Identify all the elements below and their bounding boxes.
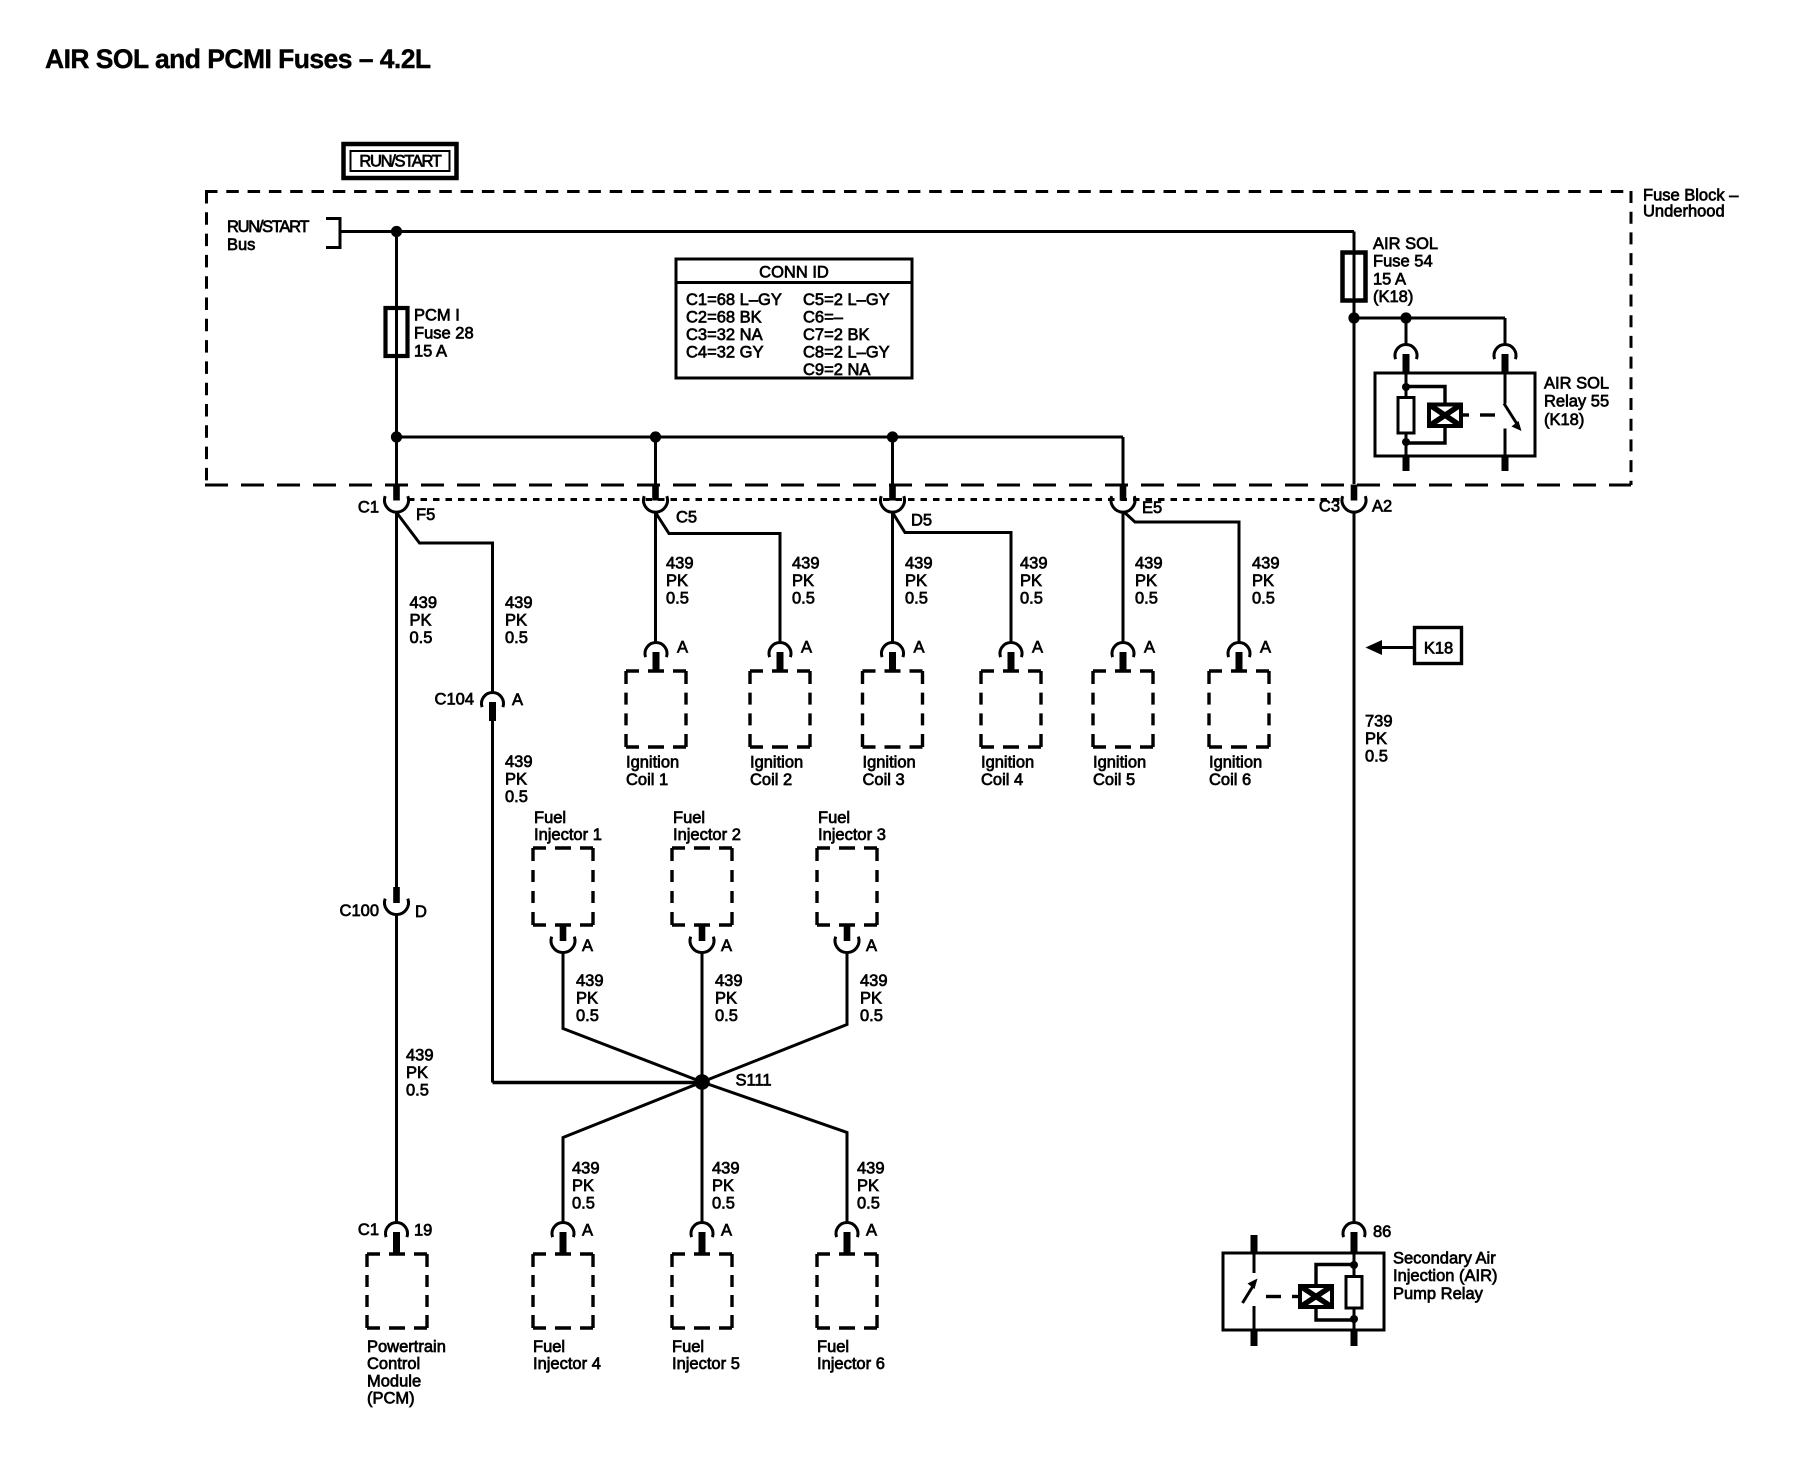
svg-text:A: A bbox=[1260, 638, 1271, 656]
svg-text:0.5: 0.5 bbox=[666, 589, 689, 607]
svg-text:(PCM): (PCM) bbox=[367, 1390, 415, 1408]
svg-text:Ignition: Ignition bbox=[863, 754, 916, 772]
svg-text:Fuel: Fuel bbox=[817, 1338, 849, 1356]
wire C100 down to PCM bbox=[395, 914, 398, 1223]
svg-text:A: A bbox=[801, 638, 812, 656]
svg-text:PK: PK bbox=[1135, 572, 1157, 590]
fuel injector 1 box bbox=[533, 848, 593, 925]
fuel injector 6 box bbox=[817, 1254, 877, 1328]
wire C5 branch to coil 2 bbox=[656, 513, 781, 644]
svg-text:Ignition: Ignition bbox=[750, 754, 803, 772]
svg-text:86: 86 bbox=[1373, 1223, 1391, 1241]
svg-text:439: 439 bbox=[406, 1046, 434, 1064]
wire splice to injector 6 bbox=[702, 1082, 847, 1223]
fuse block underhood dashed border right bbox=[1630, 191, 1633, 485]
svg-text:Coil 5: Coil 5 bbox=[1093, 771, 1135, 789]
wire relay left pin bottom bbox=[1405, 442, 1408, 456]
relay switch blade bbox=[1504, 404, 1517, 425]
svg-text:PK: PK bbox=[576, 989, 598, 1007]
relay secondary air injection pump box bbox=[1223, 1253, 1384, 1330]
wire C5 drop bbox=[654, 437, 657, 484]
svg-text:Relay 55: Relay 55 bbox=[1544, 393, 1609, 411]
svg-text:A: A bbox=[866, 937, 877, 955]
svg-text:Injector 1: Injector 1 bbox=[534, 826, 602, 844]
svg-text:739: 739 bbox=[1365, 712, 1393, 730]
svg-text:Coil 3: Coil 3 bbox=[863, 771, 905, 789]
svg-text:PK: PK bbox=[905, 572, 927, 590]
ignition coil 3 box bbox=[863, 671, 923, 747]
svg-text:(K18): (K18) bbox=[1544, 411, 1584, 429]
svg-text:PK: PK bbox=[406, 1064, 428, 1082]
node junction relay coil pin bbox=[1400, 312, 1411, 323]
pump relay switch fixed bottom bbox=[1253, 1306, 1256, 1330]
connector fuel injector 2 pin A bbox=[690, 925, 714, 953]
svg-text:439: 439 bbox=[1135, 554, 1163, 572]
wire pump resistor top bbox=[1353, 1265, 1356, 1277]
connector fuel injector 5 pin A bbox=[691, 1223, 713, 1255]
svg-text:A: A bbox=[512, 691, 523, 709]
svg-text:439: 439 bbox=[860, 972, 888, 990]
svg-text:A: A bbox=[866, 1221, 877, 1239]
pump relay right pin bottom stub bbox=[1351, 1330, 1358, 1346]
pump relay left pin bottom stub bbox=[1251, 1330, 1258, 1346]
svg-text:0.5: 0.5 bbox=[1365, 747, 1388, 765]
splice S111 bbox=[694, 1074, 710, 1090]
node pump relay coil bottom junction bbox=[1350, 1315, 1358, 1323]
wire E5 drop bbox=[1122, 437, 1125, 484]
svg-text:439: 439 bbox=[505, 594, 533, 612]
node junction below AIR SOL fuse bbox=[1348, 312, 1359, 323]
wire pump relay right pin inside bbox=[1353, 1253, 1356, 1266]
wire PCM I fuse vertical bbox=[395, 232, 398, 438]
svg-text:C4=32 GY: C4=32 GY bbox=[686, 344, 764, 362]
resistor pump relay bbox=[1346, 1277, 1362, 1309]
node pump relay coil top junction bbox=[1350, 1261, 1358, 1269]
K18 reference box bbox=[1415, 628, 1462, 664]
svg-text:C1: C1 bbox=[358, 1221, 379, 1239]
coil relay 55 winding bbox=[1429, 405, 1461, 427]
wire C104 horizontal into splice bbox=[493, 1081, 703, 1084]
svg-text:F5: F5 bbox=[416, 506, 435, 524]
svg-text:0.5: 0.5 bbox=[860, 1007, 883, 1025]
svg-text:439: 439 bbox=[1252, 554, 1280, 572]
svg-text:439: 439 bbox=[792, 554, 820, 572]
connector ignition coil 4 pin A bbox=[1000, 643, 1022, 671]
svg-text:RUN/START: RUN/START bbox=[359, 153, 441, 171]
svg-text:A: A bbox=[721, 1221, 732, 1239]
wire pump relay coil loop top bbox=[1316, 1265, 1354, 1287]
wire E5 branch to coil 6 bbox=[1124, 512, 1240, 644]
connector pump relay pin 86 bbox=[1343, 1223, 1365, 1254]
svg-text:0.5: 0.5 bbox=[715, 1007, 738, 1025]
connector ignition coil 5 pin A bbox=[1112, 643, 1134, 671]
svg-text:A: A bbox=[721, 937, 732, 955]
svg-text:CONN ID: CONN ID bbox=[759, 264, 829, 282]
connector relay 55 pin left bbox=[1395, 345, 1417, 374]
svg-text:0.5: 0.5 bbox=[1135, 589, 1158, 607]
svg-text:D5: D5 bbox=[911, 511, 932, 529]
connector relay 55 pin right bbox=[1494, 345, 1516, 374]
svg-text:Fuse 28: Fuse 28 bbox=[414, 324, 474, 342]
svg-text:PK: PK bbox=[1365, 730, 1387, 748]
connector ignition coil 6 pin A bbox=[1228, 643, 1250, 671]
in-line harness connector dotted line bbox=[408, 498, 1343, 501]
svg-text:PK: PK bbox=[792, 572, 814, 590]
pump relay switch fixed top bbox=[1253, 1253, 1256, 1273]
svg-text:0.5: 0.5 bbox=[576, 1007, 599, 1025]
connector C100 bbox=[385, 887, 409, 915]
connector C1 F5 bbox=[385, 485, 409, 513]
K18 arrow bbox=[1366, 640, 1383, 655]
svg-text:A: A bbox=[914, 638, 925, 656]
svg-text:PK: PK bbox=[712, 1177, 734, 1195]
svg-text:Module: Module bbox=[367, 1372, 421, 1390]
wire D5 drop bbox=[891, 437, 894, 484]
powertrain control module box bbox=[367, 1254, 427, 1328]
wire relay coil pin inside bbox=[1405, 373, 1408, 388]
wire AIR SOL fuse vertical bbox=[1353, 232, 1356, 485]
relay right pin bottom stub bbox=[1502, 456, 1509, 471]
relay switch fixed bottom bbox=[1504, 429, 1507, 457]
node bus junction C1 bbox=[391, 431, 402, 442]
CONN ID table box bbox=[676, 259, 912, 378]
svg-text:439: 439 bbox=[715, 972, 743, 990]
wire injector 3 drop bbox=[702, 953, 847, 1083]
connector C3 A2 bbox=[1342, 485, 1366, 513]
wire F5 diagonal branch bbox=[397, 513, 493, 693]
svg-text:15 A: 15 A bbox=[1373, 270, 1406, 288]
wire relay coil loop top bbox=[1406, 387, 1445, 405]
relay coil linkage stub bbox=[1461, 413, 1469, 416]
ignition coil 2 box bbox=[750, 671, 810, 747]
svg-text:439: 439 bbox=[410, 594, 438, 612]
svg-text:PK: PK bbox=[505, 611, 527, 629]
fuel injector 4 box bbox=[533, 1254, 593, 1328]
svg-text:Fuel: Fuel bbox=[533, 1338, 565, 1356]
ignition coil 6 box bbox=[1209, 671, 1269, 747]
fuse block underhood dashed border top bbox=[205, 190, 1631, 193]
svg-text:PK: PK bbox=[666, 572, 688, 590]
svg-text:Coil 4: Coil 4 bbox=[981, 771, 1023, 789]
wire splice to injector 4 bbox=[563, 1082, 702, 1223]
ignition coil 1 box bbox=[626, 671, 686, 747]
svg-text:Injector 5: Injector 5 bbox=[672, 1355, 740, 1373]
ignition coil 4 box bbox=[981, 671, 1041, 747]
svg-text:Ignition: Ignition bbox=[626, 754, 679, 772]
wire C3 A2 down to pump relay bbox=[1353, 512, 1356, 1223]
svg-text:Fuel: Fuel bbox=[672, 1338, 704, 1356]
connector fuel injector 4 pin A bbox=[552, 1223, 574, 1255]
fuse PCM I Fuse 28 bbox=[386, 308, 408, 356]
svg-text:0.5: 0.5 bbox=[1252, 589, 1275, 607]
connector PCM C1 pin 19 bbox=[386, 1223, 408, 1255]
svg-text:Injector 3: Injector 3 bbox=[818, 826, 886, 844]
node bus junction D5 bbox=[887, 431, 898, 442]
wire relay switch pin drop bbox=[1504, 318, 1507, 346]
svg-text:A: A bbox=[677, 638, 688, 656]
coil pump relay winding bbox=[1300, 1286, 1332, 1307]
pump relay switch blade bbox=[1243, 1286, 1254, 1303]
RUN/START feed box bbox=[344, 144, 457, 178]
svg-text:PK: PK bbox=[860, 989, 882, 1007]
pump relay linkage dash bbox=[1266, 1295, 1281, 1298]
svg-text:Injector 6: Injector 6 bbox=[817, 1355, 885, 1373]
wire splice to injector 5 bbox=[701, 1082, 704, 1223]
svg-text:C6=–: C6=– bbox=[803, 309, 844, 327]
svg-text:PK: PK bbox=[505, 770, 527, 788]
svg-text:C5: C5 bbox=[676, 508, 697, 526]
resistor relay 55 bbox=[1398, 398, 1414, 434]
fuel injector 3 box bbox=[817, 848, 877, 925]
wire C1 drop bbox=[395, 356, 398, 484]
svg-text:439: 439 bbox=[666, 554, 694, 572]
svg-text:439: 439 bbox=[905, 554, 933, 572]
svg-text:439: 439 bbox=[1020, 554, 1048, 572]
svg-text:C1: C1 bbox=[358, 498, 379, 516]
connector E5 bbox=[1111, 485, 1135, 513]
svg-text:C3=32 NA: C3=32 NA bbox=[686, 326, 763, 344]
node junction at PCM I fuse drop bbox=[391, 226, 402, 237]
svg-text:19: 19 bbox=[414, 1221, 432, 1239]
wire injector 2 drop bbox=[701, 953, 704, 1083]
svg-text:Injector 4: Injector 4 bbox=[533, 1355, 601, 1373]
wire injector 1 drop bbox=[563, 953, 702, 1083]
svg-text:0.5: 0.5 bbox=[857, 1194, 880, 1212]
svg-text:C3: C3 bbox=[1319, 498, 1340, 516]
svg-text:Coil 1: Coil 1 bbox=[626, 771, 668, 789]
RUN/START bus bracket bbox=[339, 217, 342, 249]
wire pump relay coil loop bottom bbox=[1316, 1307, 1354, 1320]
connector fuel injector 1 pin A bbox=[551, 925, 575, 953]
node bus junction C5 bbox=[650, 431, 661, 442]
wire C5 to coil 1 bbox=[654, 512, 657, 643]
svg-text:0.5: 0.5 bbox=[712, 1194, 735, 1212]
svg-text:C9=2 NA: C9=2 NA bbox=[803, 361, 870, 379]
svg-text:439: 439 bbox=[572, 1159, 600, 1177]
svg-text:Injection (AIR): Injection (AIR) bbox=[1393, 1267, 1498, 1285]
svg-text:PK: PK bbox=[715, 989, 737, 1007]
svg-text:PK: PK bbox=[1020, 572, 1042, 590]
svg-text:Coil 2: Coil 2 bbox=[750, 771, 792, 789]
pump relay left pin top stub bbox=[1251, 1235, 1258, 1254]
svg-text:C100: C100 bbox=[340, 902, 379, 920]
svg-text:Pump Relay: Pump Relay bbox=[1393, 1285, 1484, 1303]
svg-text:PCM I: PCM I bbox=[414, 306, 460, 324]
svg-text:C5=2 L–GY: C5=2 L–GY bbox=[803, 291, 890, 309]
svg-text:Fuse 54: Fuse 54 bbox=[1373, 253, 1433, 271]
svg-text:Underhood: Underhood bbox=[1643, 203, 1725, 221]
svg-text:PK: PK bbox=[410, 611, 432, 629]
node relay coil bottom junction bbox=[1402, 438, 1410, 446]
pump relay coil linkage stub bbox=[1292, 1295, 1300, 1298]
svg-text:Secondary Air: Secondary Air bbox=[1393, 1249, 1496, 1267]
svg-text:Fuel: Fuel bbox=[673, 809, 705, 827]
svg-text:Ignition: Ignition bbox=[1093, 754, 1146, 772]
svg-text:Ignition: Ignition bbox=[1209, 754, 1262, 772]
svg-text:0.5: 0.5 bbox=[406, 1081, 429, 1099]
svg-text:0.5: 0.5 bbox=[792, 589, 815, 607]
wire pump resistor bottom bbox=[1353, 1308, 1356, 1320]
wire F5 straight down bbox=[395, 512, 398, 887]
svg-text:AIR SOL and PCMI Fuses – 4.2L: AIR SOL and PCMI Fuses – 4.2L bbox=[45, 44, 431, 74]
connector D5 bbox=[881, 485, 905, 513]
svg-text:RUN/START: RUN/START bbox=[227, 218, 309, 236]
fuse block underhood dashed border left bbox=[205, 191, 208, 485]
svg-text:D: D bbox=[415, 903, 427, 921]
svg-text:PK: PK bbox=[1252, 572, 1274, 590]
relay left pin bottom stub bbox=[1403, 456, 1410, 471]
svg-text:PK: PK bbox=[572, 1177, 594, 1195]
wire resistor top bbox=[1405, 387, 1408, 398]
wire D5 to coil 3 bbox=[891, 512, 894, 643]
fuel injector 5 box bbox=[672, 1254, 732, 1328]
svg-text:0.5: 0.5 bbox=[572, 1194, 595, 1212]
svg-text:C2=68 BK: C2=68 BK bbox=[686, 309, 762, 327]
svg-text:Fuse Block –: Fuse Block – bbox=[1643, 186, 1739, 204]
wire pump relay right pin bottom bbox=[1353, 1319, 1356, 1330]
wire ignition bus horizontal bbox=[397, 436, 1124, 439]
relay switch fixed top bbox=[1504, 373, 1507, 404]
svg-text:Powertrain: Powertrain bbox=[367, 1338, 446, 1356]
svg-text:C7=2 BK: C7=2 BK bbox=[803, 326, 870, 344]
connector ignition coil 3 pin A bbox=[882, 643, 904, 671]
svg-text:0.5: 0.5 bbox=[1020, 589, 1043, 607]
wire RUN/START bus horizontal bbox=[340, 230, 1354, 233]
svg-text:0.5: 0.5 bbox=[410, 629, 433, 647]
svg-text:Bus: Bus bbox=[227, 236, 255, 254]
svg-text:(K18): (K18) bbox=[1373, 288, 1413, 306]
svg-text:E5: E5 bbox=[1142, 499, 1162, 517]
relay linkage dash bbox=[1480, 413, 1495, 416]
ignition coil 5 box bbox=[1093, 671, 1153, 747]
svg-text:15 A: 15 A bbox=[414, 342, 447, 360]
connector fuel injector 3 pin A bbox=[835, 925, 859, 953]
node relay coil top junction bbox=[1402, 383, 1410, 391]
svg-text:AIR SOL: AIR SOL bbox=[1544, 375, 1609, 393]
svg-text:439: 439 bbox=[576, 972, 604, 990]
connector C104 bbox=[482, 693, 504, 721]
wire resistor bottom bbox=[1405, 433, 1408, 443]
svg-text:439: 439 bbox=[505, 753, 533, 771]
svg-text:S111: S111 bbox=[736, 1072, 772, 1090]
connector C5 bbox=[644, 485, 668, 513]
wire D5 branch to coil 4 bbox=[893, 513, 1012, 644]
svg-text:C8=2 L–GY: C8=2 L–GY bbox=[803, 344, 890, 362]
svg-text:439: 439 bbox=[712, 1159, 740, 1177]
svg-text:0.5: 0.5 bbox=[505, 788, 528, 806]
wire E5 to coil 5 bbox=[1122, 511, 1125, 643]
relay AIR SOL Relay 55 box bbox=[1375, 373, 1535, 456]
fuel injector 2 box bbox=[672, 848, 732, 925]
fuse block underhood dashed border bottom bbox=[205, 484, 1631, 487]
svg-text:C104: C104 bbox=[435, 690, 474, 708]
wire relay feed horizontal bbox=[1354, 317, 1505, 320]
connector fuel injector 6 pin A bbox=[836, 1223, 858, 1255]
svg-text:Fuel: Fuel bbox=[534, 809, 566, 827]
svg-text:C1=68 L–GY: C1=68 L–GY bbox=[686, 291, 782, 309]
svg-text:AIR SOL: AIR SOL bbox=[1373, 235, 1438, 253]
svg-text:A2: A2 bbox=[1372, 498, 1392, 516]
svg-text:Ignition: Ignition bbox=[981, 754, 1034, 772]
svg-text:0.5: 0.5 bbox=[505, 629, 528, 647]
svg-text:A: A bbox=[582, 1221, 593, 1239]
svg-text:439: 439 bbox=[857, 1159, 885, 1177]
svg-text:Coil 6: Coil 6 bbox=[1209, 771, 1251, 789]
svg-text:A: A bbox=[1032, 638, 1043, 656]
svg-text:K18: K18 bbox=[1424, 640, 1453, 658]
wire relay coil loop bottom bbox=[1406, 426, 1445, 443]
svg-text:Control: Control bbox=[367, 1355, 420, 1373]
wire C104 down to splice bbox=[491, 714, 494, 1083]
svg-text:PK: PK bbox=[857, 1177, 879, 1195]
svg-text:Injector 2: Injector 2 bbox=[673, 826, 741, 844]
connector ignition coil 2 pin A bbox=[769, 643, 791, 671]
svg-text:0.5: 0.5 bbox=[905, 589, 928, 607]
svg-text:A: A bbox=[582, 937, 593, 955]
wire relay coil pin drop bbox=[1405, 318, 1408, 346]
connector ignition coil 1 pin A bbox=[645, 643, 667, 671]
fuse AIR SOL Fuse 54 bbox=[1343, 253, 1366, 301]
svg-text:Fuel: Fuel bbox=[818, 809, 850, 827]
svg-text:A: A bbox=[1144, 638, 1155, 656]
